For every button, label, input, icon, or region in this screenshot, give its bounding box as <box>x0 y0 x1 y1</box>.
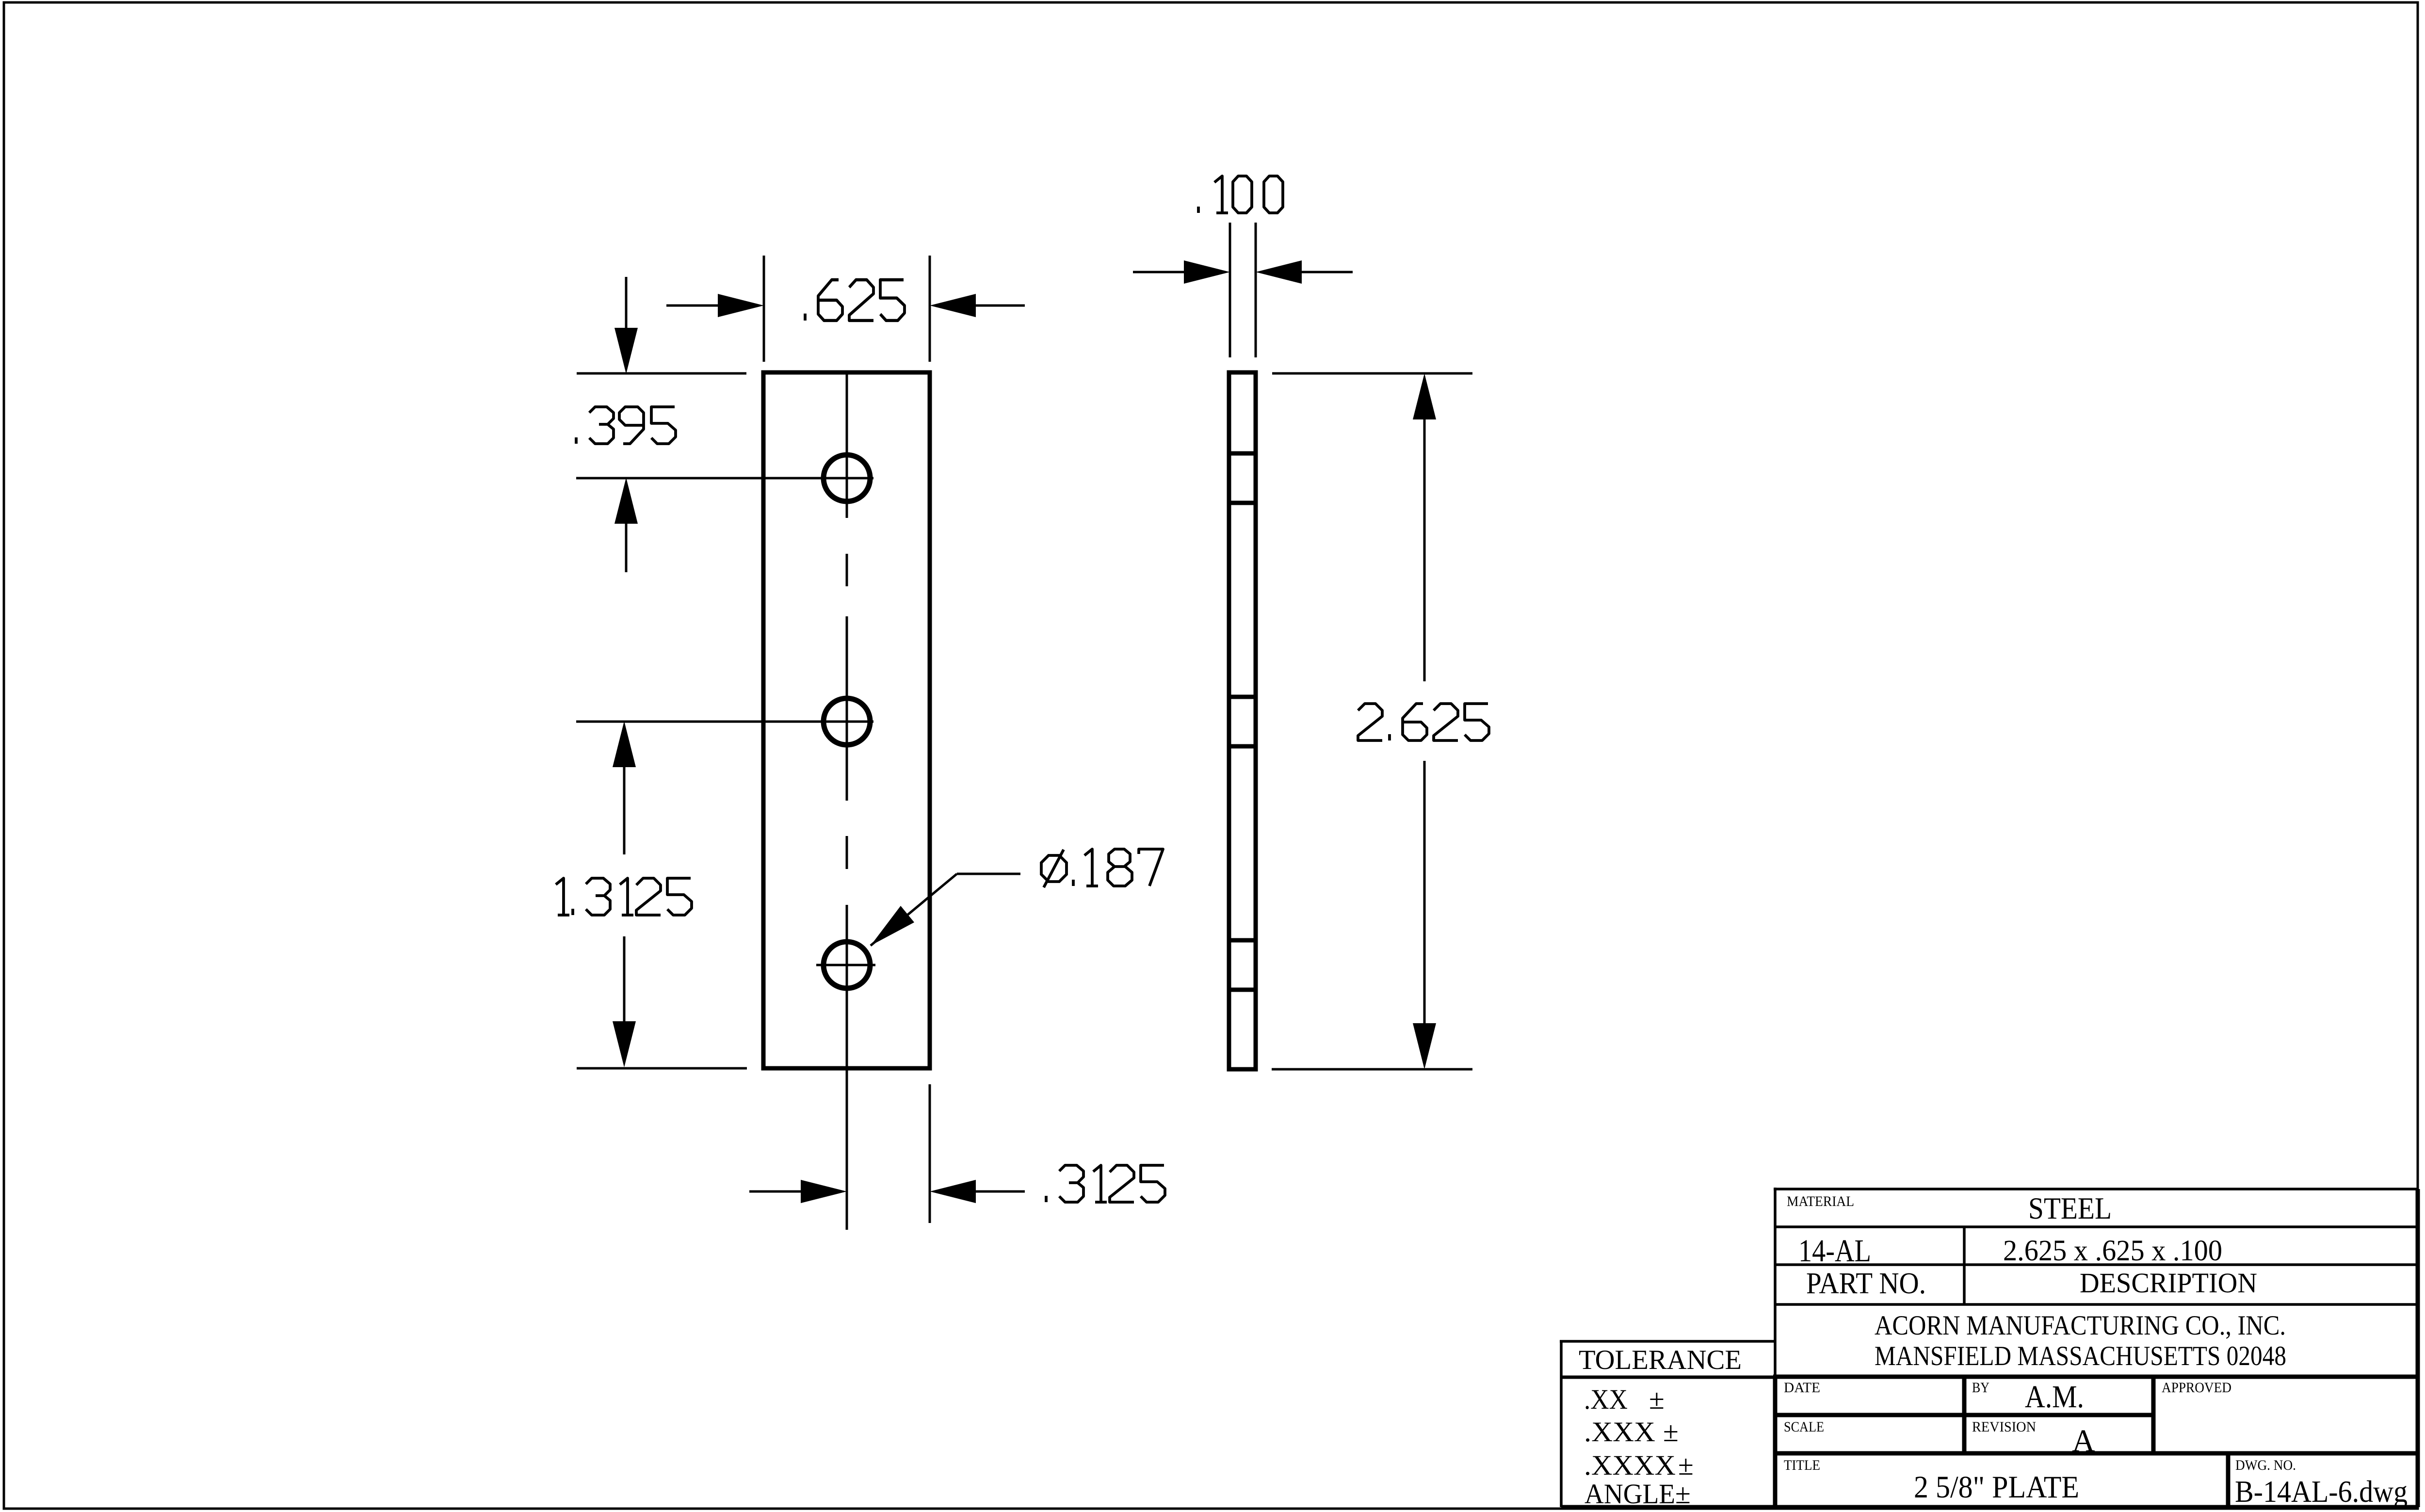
row line under MATERIAL/STEEL <box>1775 1225 2418 1228</box>
dimension .395 upper arrow <box>614 277 638 374</box>
centerline vertical <box>846 372 848 1230</box>
dimension 2.625 top extension line <box>1272 372 1472 375</box>
bottom edge extension line left <box>577 1067 747 1070</box>
svg-text:REVISION: REVISION <box>1972 1419 2036 1435</box>
row line under DATE/BY <box>1775 1413 2153 1417</box>
dimension .625 left extension line <box>763 256 765 362</box>
title block right edge <box>2416 1189 2420 1507</box>
hole H3 projection lines <box>1229 938 1256 943</box>
column divider TITLE|DWG NO <box>2226 1453 2231 1507</box>
svg-text:TOLERANCE: TOLERANCE <box>1579 1345 1742 1375</box>
svg-text:MANSFIELD MASSACHUSETTS 02048: MANSFIELD MASSACHUSETTS 02048 <box>1875 1341 2286 1371</box>
svg-text:DWG. NO.: DWG. NO. <box>2235 1457 2296 1473</box>
dimension .100 right extension line <box>1255 223 1257 357</box>
svg-text:APPROVED: APPROVED <box>2162 1380 2231 1396</box>
dimension .100 left arrow <box>1133 260 1230 284</box>
hole H1 crosshair <box>576 477 873 480</box>
hole H1 <box>824 455 870 501</box>
row line under 14-AL <box>1775 1263 2418 1266</box>
dimension text 2.625 <box>1358 704 1489 740</box>
dimension 2.625 bottom extension line <box>1272 1068 1472 1071</box>
svg-text:14-AL: 14-AL <box>1798 1233 1871 1269</box>
svg-text:.XXXX: .XXXX <box>1584 1449 1676 1481</box>
hole H3 crosshair <box>816 964 875 966</box>
dimension text 1.3125 <box>556 878 692 915</box>
dimension 1.3125 line upper segment <box>613 721 636 854</box>
dimension text .395 <box>576 407 676 444</box>
plate outline front view <box>763 372 930 1068</box>
svg-text:±: ± <box>1649 1383 1665 1415</box>
leader arrow for hole diameter <box>871 874 1020 946</box>
dimension .395 lower arrow <box>614 478 638 572</box>
svg-text:A.M.: A.M. <box>2025 1379 2084 1415</box>
column divider DATE|BY SCALE|REVISION <box>1962 1377 1967 1453</box>
dimension 2.625 line upper segment with up arrow <box>1413 373 1436 681</box>
hole H2 <box>824 698 870 745</box>
dimension text .187 <box>1073 849 1163 886</box>
svg-text:DATE: DATE <box>1784 1380 1820 1396</box>
dimension .3125 right extension line <box>929 1084 931 1223</box>
svg-text:A: A <box>2072 1423 2095 1459</box>
svg-text:±: ± <box>1678 1449 1694 1481</box>
svg-text:DESCRIPTION: DESCRIPTION <box>2080 1267 2257 1299</box>
title block outline top <box>1774 1188 1777 1377</box>
svg-text:ANGLE: ANGLE <box>1584 1478 1675 1510</box>
dimension .100 left extension line <box>1229 223 1231 357</box>
top edge extension line left <box>577 372 746 375</box>
row line under PART NO. <box>1775 1303 2418 1306</box>
dimension text .100 <box>1198 176 1283 213</box>
svg-text:MATERIAL: MATERIAL <box>1787 1193 1854 1209</box>
svg-text:SCALE: SCALE <box>1784 1419 1824 1435</box>
title block bottom edge <box>1561 1505 2418 1510</box>
dimension 1.3125 line lower segment <box>613 936 636 1067</box>
svg-text:±: ± <box>1675 1478 1691 1510</box>
dimension .625 left arrow <box>666 294 764 317</box>
plate outline side view <box>1229 372 1256 1069</box>
svg-text:2.625 x .625 x .100: 2.625 x .625 x .100 <box>2003 1235 2222 1267</box>
tolerance block outline <box>1560 1341 1775 1507</box>
dimension .100 right arrow <box>1256 260 1353 284</box>
dimension text .3125 <box>1046 1165 1165 1202</box>
title block outline bottom <box>1773 1377 1778 1507</box>
dimension .3125 left arrow <box>749 1180 847 1203</box>
svg-text:.XX: .XX <box>1584 1383 1628 1415</box>
row line under SCALE/REVISION/APPROVED <box>1775 1451 2418 1456</box>
column divider BY|APPROVED <box>2151 1377 2156 1453</box>
column divider 14-AL / PART NO. <box>1963 1227 1966 1304</box>
dimension 2.625 line lower segment with down arrow <box>1413 761 1436 1069</box>
svg-text:BY: BY <box>1972 1380 1989 1396</box>
svg-text:STEEL: STEEL <box>2028 1191 2112 1225</box>
hole H2 projection lines <box>1229 695 1256 699</box>
diameter symbol <box>1041 850 1067 887</box>
svg-text:TITLE: TITLE <box>1784 1457 1820 1473</box>
dimension .625 right arrow <box>930 294 1025 317</box>
dimension .3125 right arrow <box>930 1180 1025 1203</box>
dimension text .625 <box>805 280 905 321</box>
row line under company <box>1773 1375 2418 1379</box>
hole H2 crosshair <box>576 721 873 723</box>
hole H1 projection lines <box>1229 451 1256 456</box>
hole H3 <box>824 942 870 988</box>
svg-text:2 5/8" PLATE: 2 5/8" PLATE <box>1914 1470 2079 1505</box>
tolerance block divider <box>1561 1376 1775 1379</box>
svg-text:.XXX: .XXX <box>1584 1416 1655 1448</box>
svg-text:ACORN MANUFACTURING CO., INC.: ACORN MANUFACTURING CO., INC. <box>1875 1310 2286 1341</box>
svg-text:B-14AL-6.dwg: B-14AL-6.dwg <box>2235 1474 2408 1509</box>
dimension .625 right extension line <box>929 256 931 362</box>
svg-text:±: ± <box>1663 1416 1679 1448</box>
svg-text:PART NO.: PART NO. <box>1806 1267 1926 1300</box>
